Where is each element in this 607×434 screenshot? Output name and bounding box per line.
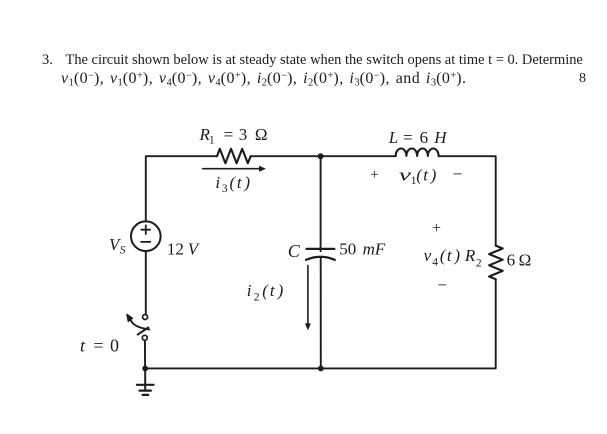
resistor R2 xyxy=(489,246,503,280)
svg-text:): ) xyxy=(243,173,250,192)
resistor R1 xyxy=(217,149,251,164)
wire: capacitor branch upper xyxy=(320,156,322,251)
svg-text:−: − xyxy=(437,276,447,295)
problem statement line 2 xyxy=(61,71,466,87)
svg-text:(: ( xyxy=(440,246,447,265)
svg-text:0: 0 xyxy=(110,336,119,356)
svg-text:v: v xyxy=(424,246,432,265)
label v1(t) xyxy=(399,165,437,187)
svg-text:3: 3 xyxy=(239,125,248,144)
label 12 V xyxy=(167,239,201,258)
svg-text:2: 2 xyxy=(254,292,260,304)
svg-text:(: ( xyxy=(416,165,423,184)
svg-text:50: 50 xyxy=(339,240,356,259)
switch SW1 opening-motion arc xyxy=(131,320,149,329)
label R1 = 3 Ohm xyxy=(199,125,268,147)
svg-text:C: C xyxy=(288,241,301,261)
problem statement line 1 number xyxy=(42,53,53,67)
svg-text:6: 6 xyxy=(507,251,515,270)
svg-text:1: 1 xyxy=(209,135,215,147)
label 6 Ohm xyxy=(507,251,532,270)
svg-text:=: = xyxy=(403,128,413,147)
wire: node B to node C xyxy=(145,367,321,369)
svg-text:mF: mF xyxy=(363,240,386,259)
svg-text:=: = xyxy=(224,125,234,144)
switch SW1 (opens at t=0): upper terminal xyxy=(143,315,148,320)
capacitor C bottom plate (curved) xyxy=(306,257,335,260)
switch SW1 lower terminal xyxy=(142,335,147,340)
switch SW1 motion arrowhead xyxy=(127,314,133,321)
svg-text:v: v xyxy=(399,165,412,184)
label i3(t) xyxy=(215,173,250,195)
label 50 mF xyxy=(339,240,386,259)
current arrow i2 (downward) xyxy=(305,266,311,331)
svg-text:12: 12 xyxy=(167,239,184,258)
label + for v4 xyxy=(432,220,441,237)
label i2(t) xyxy=(247,281,284,303)
svg-text:t: t xyxy=(80,336,86,356)
wire: inductor to top-right corner down to R2 xyxy=(439,156,496,245)
wire: node A to inductor xyxy=(321,155,396,157)
svg-text:S: S xyxy=(120,244,126,256)
label t = 0 xyxy=(80,336,119,356)
svg-text:3: 3 xyxy=(222,183,228,195)
svg-text:6: 6 xyxy=(420,128,429,147)
svg-text:t: t xyxy=(423,165,429,184)
problem statement line 1 xyxy=(66,53,583,67)
svg-text:): ) xyxy=(277,281,284,300)
label + for v1 xyxy=(370,167,378,183)
label Vs xyxy=(109,235,126,256)
points value 8 xyxy=(579,72,586,86)
svg-text:i: i xyxy=(247,281,252,300)
label minus for v1 xyxy=(453,164,463,183)
svg-text:−: − xyxy=(453,164,463,183)
svg-text:+: + xyxy=(370,167,378,183)
inductor L xyxy=(396,149,439,156)
switch SW1 blade xyxy=(138,328,149,335)
wire: capacitor branch lower xyxy=(320,258,322,369)
node B (bottom of capacitor branch) xyxy=(318,366,324,372)
capacitor C top plate xyxy=(307,248,335,250)
svg-text:2: 2 xyxy=(476,257,482,269)
label minus for v4 xyxy=(437,276,447,295)
svg-text:=: = xyxy=(93,336,103,356)
ground xyxy=(137,368,154,395)
svg-text:): ) xyxy=(453,246,460,265)
svg-text:H: H xyxy=(433,128,448,147)
svg-text:Ω: Ω xyxy=(519,251,532,270)
wire: switch to node C xyxy=(144,340,146,368)
svg-text:t: t xyxy=(447,246,453,265)
svg-text:t: t xyxy=(270,281,276,300)
svg-text:i: i xyxy=(215,173,220,192)
svg-text:t: t xyxy=(237,173,243,192)
svg-text:): ) xyxy=(430,165,437,184)
label L = 6 H xyxy=(388,128,449,147)
label v4(t) R2 xyxy=(424,246,482,270)
svg-text:Ω: Ω xyxy=(255,125,268,144)
svg-text:+: + xyxy=(432,220,441,237)
wire: R2 to bottom-right corner to node B xyxy=(321,279,496,368)
wire: top-left segment from Vs up and right to R1 xyxy=(146,156,217,221)
wire: R1 to node A xyxy=(251,155,321,157)
wire: Vs to switch xyxy=(145,251,147,314)
svg-text:R: R xyxy=(464,246,476,265)
svg-text:(: ( xyxy=(230,173,237,192)
current arrow i3 (rightward) xyxy=(203,166,266,172)
svg-text:4: 4 xyxy=(432,256,438,268)
svg-text:(: ( xyxy=(262,281,269,300)
voltage source Vs xyxy=(131,221,161,251)
node C (above ground) xyxy=(142,366,148,372)
svg-text:V: V xyxy=(188,239,201,258)
node A (top of capacitor branch) xyxy=(318,153,324,159)
label C xyxy=(288,241,301,261)
svg-text:L: L xyxy=(388,128,398,147)
